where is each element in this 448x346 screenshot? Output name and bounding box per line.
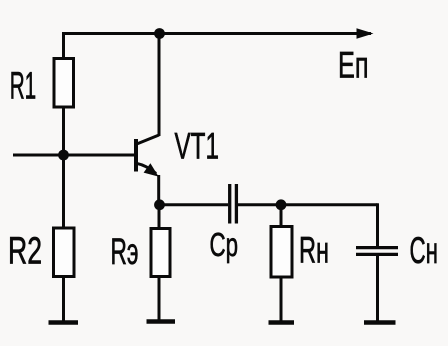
node collector rail junction	[154, 28, 165, 39]
capacitor Сн	[356, 248, 398, 255]
wire emitter node to Cp	[159, 203, 228, 206]
resistor R2	[54, 228, 75, 277]
wire Rн bottom lead	[280, 277, 283, 323]
svg-text:Сн: Сн	[410, 229, 439, 271]
svg-text:Rн: Rн	[299, 229, 329, 271]
ground Rэ	[147, 319, 176, 324]
node base junction	[58, 150, 69, 161]
wire emitter down	[157, 175, 160, 205]
emitter diagonal	[136, 163, 156, 173]
wire Rэ bottom lead	[158, 277, 161, 322]
emitter arrowhead	[144, 163, 159, 176]
base bar	[134, 139, 138, 172]
svg-text:Rэ: Rэ	[111, 230, 139, 272]
wire top rail	[64, 32, 372, 35]
resistor Rэ	[151, 229, 170, 277]
svg-text:VT1: VT1	[175, 125, 220, 167]
capacitor Ср	[230, 184, 237, 224]
wire R2 bottom lead	[62, 277, 65, 323]
wire collector	[158, 34, 161, 137]
wire R1 to R2	[62, 107, 65, 228]
transistor VT1	[136, 135, 160, 177]
collector diagonal	[136, 135, 160, 145]
wire base input	[13, 154, 135, 157]
wire Rн top lead	[280, 205, 283, 227]
ground Rн	[269, 320, 295, 325]
wire R1 top lead	[62, 32, 65, 59]
supply arrow Еп	[357, 28, 374, 38]
node Rн junction	[276, 199, 287, 210]
node emitter junction	[154, 199, 165, 210]
wire Rэ top lead	[158, 205, 161, 229]
wire Cн bottom lead	[376, 255, 379, 323]
svg-text:R2: R2	[8, 231, 42, 273]
resistor Rн	[271, 227, 292, 278]
svg-text:Ср: Ср	[210, 227, 239, 264]
wire Cp to Cн corner	[238, 203, 378, 206]
wire Cн top lead	[376, 203, 379, 247]
ground R2	[49, 320, 79, 325]
svg-text:Еп: Еп	[338, 44, 369, 86]
svg-text:R1: R1	[10, 66, 37, 108]
ground Сн	[364, 320, 396, 325]
resistor R1	[54, 59, 74, 108]
